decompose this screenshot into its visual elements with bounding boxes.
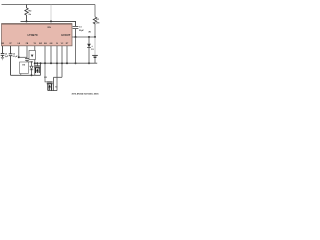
- svg-text:3970 AN104 f04 TA01a 0906: 3970 AN104 f04 TA01a 0906: [71, 93, 99, 96]
- IC U1 body: [2, 24, 73, 46]
- wire: M1 right riser: [40, 63, 42, 75]
- wire: faint VIN drop: [50, 5, 52, 22]
- wire: VOUT net horizontal: [72, 36, 95, 38]
- wire: net y57 to C4 branch: [19, 56, 27, 58]
- wire: right rail upper: [94, 5, 96, 17]
- node: M1 riser bus dot: [40, 62, 42, 64]
- svg-text:1M: 1M: [22, 64, 25, 66]
- IC U1 top border emphasis: [2, 23, 73, 25]
- svg-text:4V: 4V: [88, 31, 91, 34]
- capacitor C2 (pin1 column): [1, 46, 5, 57]
- capacitor C1: [73, 26, 79, 37]
- box component U3: [20, 62, 29, 74]
- diode D1: [88, 37, 90, 44]
- wire: pin8 column: [50, 46, 52, 63]
- node: D2 bottom junction: [31, 74, 33, 76]
- svg-text:R1: R1: [96, 19, 100, 21]
- svg-text:M1: M1: [31, 62, 34, 64]
- wire: pin4 column: [26, 46, 28, 58]
- wire: pin7 column: [44, 46, 46, 63]
- box component U2: [29, 51, 35, 60]
- svg-text:SW: SW: [39, 43, 42, 45]
- svg-text:2k: 2k: [29, 14, 32, 16]
- svg-text:2M: 2M: [96, 23, 99, 25]
- ground pin1 column: [1, 57, 4, 59]
- node: pin3 junction dot: [18, 56, 20, 58]
- node: pin7 bus junction: [44, 62, 46, 64]
- node: x62 bus junction: [61, 62, 63, 64]
- transistor M2: [47, 82, 53, 91]
- wire: top rail: [2, 4, 96, 6]
- capacitor C4: [25, 58, 29, 62]
- node: pin11 bus junction: [66, 62, 68, 64]
- node: pin5 bus junction: [34, 62, 36, 64]
- IC U1 bottom pin name labels: [1, 43, 69, 45]
- wire: box U3 to bus: [20, 74, 22, 76]
- wire: VCC net above IC: [21, 21, 76, 26]
- wire: bottom-left bus: [11, 74, 41, 76]
- svg-text:22µF: 22µF: [79, 30, 85, 32]
- wire: M2 drain vertical: [53, 77, 55, 90]
- wire: M2 gate feed: [45, 63, 47, 82]
- node: pin8 bus junction: [50, 62, 52, 64]
- svg-text:C1: C1: [79, 27, 83, 29]
- svg-text:+: +: [91, 45, 93, 48]
- node: VIN junction dot: [50, 20, 52, 22]
- wire: C1 column down to bus: [75, 37, 77, 63]
- svg-text:HVOUT: HVOUT: [61, 33, 70, 37]
- wire: M1 gate stub: [36, 63, 38, 66]
- svg-text:VIN: VIN: [47, 27, 51, 29]
- svg-text:R2: R2: [29, 11, 33, 13]
- svg-text:LT3970: LT3970: [27, 33, 37, 37]
- transistor M1: [34, 66, 40, 73]
- svg-text:D1: D1: [91, 49, 93, 51]
- wire: x57 riser: [56, 63, 58, 90]
- node: R2 bottom junction dot: [26, 20, 28, 22]
- node: VOUT/D1 junction: [88, 36, 90, 38]
- capacitor C3 (pin2 column): [9, 46, 13, 75]
- wire: pin11 column: [66, 46, 68, 63]
- node: D1 bus junction: [88, 62, 90, 64]
- wire: pin3 column: [18, 46, 20, 57]
- wire: M2 bottom wire: [48, 90, 57, 92]
- wire: right rail lower: [94, 25, 96, 37]
- svg-text:M2: M2: [44, 77, 47, 79]
- zener D2: [31, 62, 33, 66]
- wire: pin5 column through box: [34, 46, 36, 75]
- svg-text:0.1µF: 0.1µF: [13, 56, 19, 58]
- node: M1 gate bus dot: [36, 62, 38, 64]
- node: VOUT/C1 cross junction: [75, 36, 77, 38]
- resistor R2 drop from top rail: [25, 5, 28, 22]
- svg-text:1µF: 1µF: [5, 56, 9, 58]
- node: C1 bus junction: [75, 62, 77, 64]
- wire: mid bus y63: [35, 62, 97, 64]
- wire: y77 link to x62 riser: [54, 63, 63, 77]
- battery BT1: [94, 37, 96, 55]
- node: x57 bus junction: [56, 62, 58, 64]
- wire: pin10 column: [61, 46, 63, 63]
- resistor R1: [93, 17, 96, 25]
- wire: pin9 column: [56, 46, 58, 63]
- wire: link cap/box/zener tops: [27, 61, 32, 63]
- node: VOUT/right-rail junction: [94, 36, 96, 38]
